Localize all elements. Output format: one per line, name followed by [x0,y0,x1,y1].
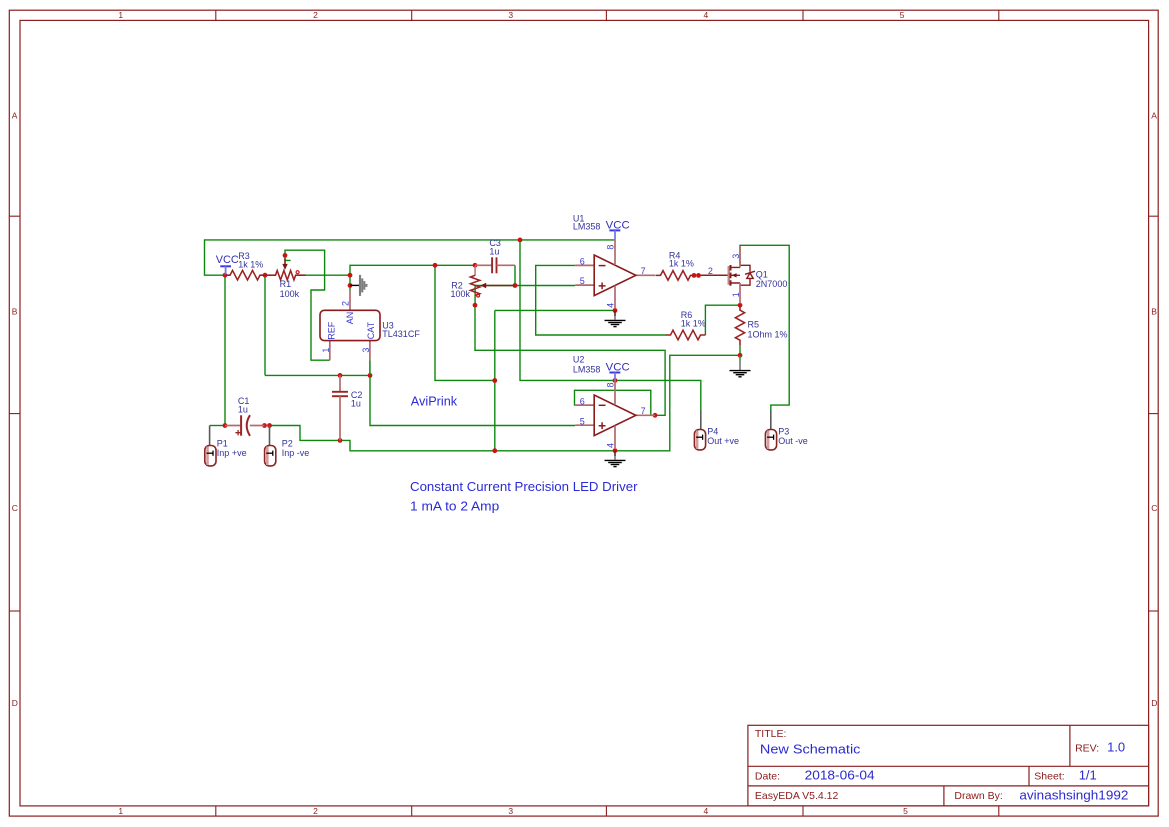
node AN branch [433,263,438,268]
capacitor C3 1u [475,238,515,273]
VCC symbol left [216,254,239,275]
wire C3 right to wiper node [514,265,516,285]
svg-text:1: 1 [118,10,123,20]
node AN-rail [348,273,353,278]
node AN-gnd [348,283,353,288]
svg-text:Out -ve: Out -ve [778,436,808,446]
svg-text:1 mA to 2 Amp: 1 mA to 2 Amp [410,499,499,513]
VCC symbol U2 [606,362,630,381]
svg-text:2018-06-04: 2018-06-04 [805,768,875,783]
node C2 top [338,373,343,378]
svg-text:1: 1 [118,806,123,816]
svg-text:100k: 100k [451,289,471,299]
node x495-y380 [492,378,497,383]
wire U2 output feedback to R2 [475,305,665,415]
svg-text:TITLE:: TITLE: [755,728,787,740]
svg-text:7: 7 [641,406,646,416]
wire R1 wiper loop to REF [285,250,330,360]
svg-text:4: 4 [605,303,615,308]
svg-text:VCC: VCC [216,254,239,266]
svg-text:1u: 1u [351,399,361,409]
svg-text:2: 2 [708,266,713,276]
svg-text:Out +ve: Out +ve [707,436,739,446]
svg-text:CAT: CAT [366,321,376,339]
svg-text:1k 1%: 1k 1% [681,318,706,328]
node C2 bottom [338,438,343,443]
transistor Q1 2N7000 [701,246,787,304]
svg-text:1: 1 [731,292,741,297]
node C1 right a [262,423,267,428]
node wiper-C3 [513,283,518,288]
svg-text:1: 1 [321,348,331,353]
svg-text:1k 1%: 1k 1% [238,259,263,269]
node R3-R1 [263,273,268,278]
resistor R3 1k 1% [225,251,265,280]
svg-text:6: 6 [580,257,585,267]
wire U1 pin4 rail [495,309,615,311]
svg-text:R1: R1 [280,279,292,289]
node VCC top [518,238,523,243]
wire AN branch x435 [435,265,495,380]
svg-text:P4: P4 [707,426,718,436]
svg-text:REF: REF [326,321,336,340]
wire wiper under R2 to bottom [475,286,515,306]
svg-text:AN: AN [345,312,355,325]
shunt reference U3 TL431CF [320,290,420,375]
wire CAT to U2 pin5 [370,375,575,425]
svg-text:7: 7 [641,266,646,276]
node U1 pin4 [613,308,618,313]
svg-text:P1: P1 [217,438,228,448]
ground U1 pin4 [605,311,626,327]
capacitor C1 1u polarized [225,396,265,436]
VCC symbol U1 [606,219,630,240]
wire gnd vertical x495 [494,310,496,450]
svg-text:C: C [1151,503,1157,513]
svg-text:3: 3 [361,348,371,353]
wire R6 right to Q1 source [705,305,740,335]
svg-text:8: 8 [605,245,615,250]
wire R1 right to node AN [306,274,351,276]
svg-text:4: 4 [605,443,615,448]
wire Q1 source to R5 [739,303,741,305]
svg-text:1/1: 1/1 [1079,768,1097,783]
wire AN rail [350,265,475,290]
svg-text:2N7000: 2N7000 [756,279,788,289]
svg-text:5: 5 [580,276,585,286]
svg-text:LM358: LM358 [573,365,601,375]
pin P4 Out +ve [694,411,739,450]
resistor R4 1k 1% [656,251,696,281]
svg-text:C: C [12,503,18,513]
title block border [748,725,1149,806]
wire wiper node to U1 pin5 [515,285,575,287]
frame row letters left [12,111,18,708]
svg-text:Q1: Q1 [756,269,768,279]
svg-text:3: 3 [508,10,513,20]
node Q1 source R5 [738,303,743,308]
node R5 bottom [738,353,743,358]
ground R5 bottom [730,355,751,377]
wire R5 bottom lead [739,345,741,355]
wire VCC left vertical to C1 [224,275,226,425]
svg-text:2: 2 [341,301,351,306]
node R2 bottom [473,303,478,308]
svg-text:Date:: Date: [755,771,780,783]
svg-text:A: A [12,111,18,121]
svg-text:A: A [1151,111,1157,121]
wire R4 to Q1 gate stub [699,274,702,276]
frame ruler ticks left [9,216,20,611]
svg-text:B: B [1151,307,1157,317]
node CAT pin3 [368,373,373,378]
ground (gray, sideways at U3 AN) [350,275,366,296]
node R1 wiper [283,253,288,258]
svg-text:8: 8 [605,382,615,387]
svg-text:1u: 1u [238,404,248,414]
svg-text:EasyEDA V5.4.12: EasyEDA V5.4.12 [755,790,839,802]
svg-text:1k 1%: 1k 1% [669,259,694,269]
svg-text:P3: P3 [778,426,789,436]
svg-text:U2: U2 [573,355,585,365]
pin P3 Out -ve [765,411,807,450]
svg-text:New Schematic: New Schematic [760,741,861,756]
svg-text:REV:: REV: [1075,743,1099,755]
frame column numbers bottom [118,806,908,816]
node R4 out b [696,273,701,278]
wire node 265 down to CAT rail [264,275,266,375]
svg-text:3: 3 [731,254,741,259]
wire VCC top rail [205,240,616,275]
svg-text:LM358: LM358 [573,222,601,232]
op-amp U1 LM358 [573,213,655,308]
svg-text:4: 4 [704,10,709,20]
svg-text:5: 5 [580,416,585,426]
node x495-gnd rail [492,448,497,453]
frame ruler ticks top [216,10,999,20]
svg-text:B: B [12,307,18,317]
svg-text:Inp -ve: Inp -ve [282,448,310,458]
node C1 left [223,423,228,428]
svg-text:Constant Current Precision LED: Constant Current Precision LED Driver [410,480,638,494]
svg-text:P2: P2 [282,438,293,448]
wire CAT rail [265,374,370,376]
node U2 pin4 [613,448,618,453]
wire P1 to C1 [210,425,225,427]
svg-text:6: 6 [580,396,585,406]
svg-text:Sheet:: Sheet: [1034,771,1064,783]
frame ruler ticks right [1149,216,1159,611]
svg-text:D: D [1151,698,1157,708]
svg-text:D: D [12,698,18,708]
svg-text:Inp +ve: Inp +ve [217,448,247,458]
svg-text:4: 4 [704,806,709,816]
svg-text:avinashsingh1992: avinashsingh1992 [1019,787,1128,802]
svg-text:2: 2 [313,806,318,816]
wire U2 pin6 feedback loop [575,390,651,415]
svg-text:Drawn By:: Drawn By: [954,790,1002,802]
svg-text:TL431CF: TL431CF [382,329,420,339]
svg-text:100k: 100k [280,289,300,299]
resistor R6 1k 1% [666,310,706,340]
wire ground return rail [270,355,741,451]
svg-text:2: 2 [313,10,318,20]
pin P2 Inp -ve [265,426,310,466]
wire Q1 drain to P3 [740,245,789,410]
potentiometer R1 100k [266,259,306,300]
node VCC-R3 [223,273,228,278]
svg-text:5: 5 [903,806,908,816]
wire VCC via x520 to U2 and P4 [520,240,701,411]
svg-text:1u: 1u [489,246,499,256]
svg-text:1.0: 1.0 [1107,740,1125,755]
capacitor C2 1u [332,375,362,440]
frame ruler ticks bottom [216,806,999,816]
potentiometer R2 100k [451,267,516,300]
svg-text:5: 5 [900,10,905,20]
resistor R5 1Ohm 1% [735,305,787,345]
svg-text:AviPrink: AviPrink [411,394,458,409]
node C1 right b / P2 [267,423,272,428]
svg-text:R5: R5 [748,320,760,330]
op-amp U2 LM358 [573,355,655,449]
frame row letters right [1151,111,1157,708]
node R4 out a [692,273,697,278]
frame column numbers top [118,10,904,20]
wire R1 wiper stub [285,255,291,260]
wire U1 pin6 to R6 [536,265,666,335]
pin P1 Inp +ve [205,426,247,466]
node R2 top [473,263,478,268]
svg-text:3: 3 [508,806,513,816]
ground U2 pin4 [605,451,626,467]
node U2 output [653,413,658,418]
node U2 VCC pin8 [613,378,618,383]
svg-text:1Ohm 1%: 1Ohm 1% [748,330,788,340]
